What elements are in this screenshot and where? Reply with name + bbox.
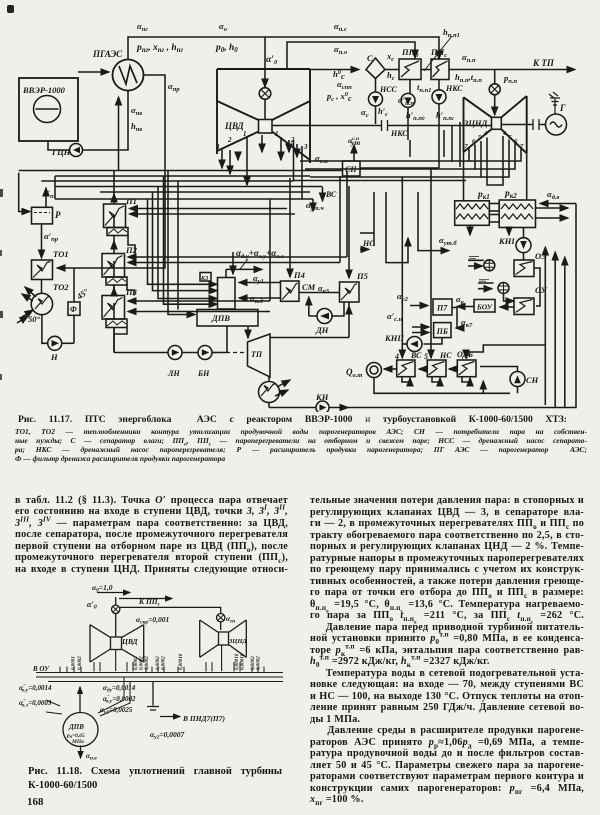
svg-text:Р: Р (55, 210, 61, 220)
svg-text:αк.д: αк.д (250, 293, 264, 305)
svg-text:ДПВ: ДПВ (211, 313, 230, 323)
svg-text:αпр: αпр (168, 81, 180, 93)
svg-text:hпв: hпв (131, 121, 142, 133)
svg-text:hп.п1: hп.п1 (443, 27, 460, 39)
svg-text:0,0002: 0,0002 (162, 656, 167, 670)
svg-text:α"о.у=0,0014: α"о.у=0,0014 (19, 684, 52, 694)
svg-text:αо: αо (219, 21, 228, 33)
svg-text:П2: П2 (125, 245, 138, 255)
svg-text:ПБ: ПБ (436, 327, 448, 336)
svg-text:ЦВД: ЦВД (121, 637, 138, 646)
svg-text:αк: αк (456, 294, 465, 306)
svg-text:αгп: αгп (226, 614, 235, 625)
svg-text:αд.у+αэ.у+αо.э: αд.у+αэ.у+αо.э (236, 248, 284, 260)
svg-text:p0, h0: p0, h0 (215, 43, 238, 54)
svg-text:αпв: αпв (131, 105, 142, 117)
svg-text:αд.в: αд.в (547, 189, 560, 201)
svg-text:КНI: КНI (498, 236, 515, 246)
svg-text:МПа: МПа (71, 739, 84, 745)
svg-text:П5: П5 (356, 271, 369, 281)
svg-text:К ТП: К ТП (532, 58, 555, 68)
svg-text:БН: БН (197, 369, 210, 378)
svg-text:0,00016: 0,00016 (179, 653, 184, 670)
svg-text:xс: xс (386, 51, 394, 63)
svg-text:В ОУ: В ОУ (32, 665, 50, 673)
svg-text:pп.п: pп.п (503, 73, 517, 85)
svg-text:α"о.э=0,0003: α"о.э=0,0003 (19, 699, 52, 709)
svg-text:КН: КН (315, 392, 329, 402)
svg-text:α′с.н: α′с.н (387, 311, 403, 323)
svg-text:ОЭ: ОЭ (535, 251, 547, 261)
svg-text:hс: hс (387, 70, 395, 82)
svg-text:αут.ч: αут.ч (306, 200, 324, 212)
svg-text:tп.п1: tп.п1 (417, 82, 431, 94)
svg-text:ГЦН: ГЦН (51, 147, 71, 157)
svg-text:2: 2 (227, 136, 232, 144)
svg-text:Qо.т: Qо.т (346, 367, 362, 379)
svg-text:П3: П3 (125, 287, 138, 297)
svg-text:αду=0,0014: αду=0,0014 (103, 684, 136, 694)
svg-text:НС: НС (362, 239, 375, 248)
svg-text:0,0002: 0,0002 (156, 656, 161, 670)
svg-text:αу1=0,0025: αу1=0,0025 (100, 706, 133, 716)
svg-text:Г: Г (559, 103, 566, 113)
svg-text:αп.с: αп.с (334, 21, 347, 33)
svg-text:В ПНД7(П7): В ПНД7(П7) (182, 714, 225, 723)
svg-text:1: 1 (243, 130, 247, 138)
svg-text:0,00016: 0,00016 (241, 653, 246, 670)
svg-text:С: С (367, 53, 373, 63)
svg-text:Н: Н (50, 352, 58, 362)
svg-text:αп.п: αп.п (462, 52, 476, 64)
svg-text:ВС: ВС (410, 351, 422, 360)
svg-text:КНII: КНII (384, 333, 405, 343)
svg-text:0,0002: 0,0002 (257, 656, 262, 670)
svg-text:h′п.п0: h′п.п0 (406, 110, 425, 122)
svg-text:α′0: α′0 (266, 55, 278, 66)
svg-text:0,0002: 0,0002 (145, 656, 150, 670)
svg-text:ПП0: ПП0 (401, 47, 419, 59)
svg-text:СН: СН (526, 375, 539, 385)
svg-text:КЗ: КЗ (200, 276, 208, 282)
svg-text:αс.и: αс.и (315, 153, 328, 165)
svg-text:αп.о: αп.о (334, 44, 348, 56)
svg-text:3: 3 (303, 143, 308, 151)
svg-text:h′с: h′с (378, 106, 388, 118)
svg-text:pс , x0с: pс , x0с (326, 91, 352, 103)
svg-text:НКС: НКС (390, 129, 408, 138)
svg-text:5: 5 (424, 352, 428, 361)
svg-text:П7: П7 (436, 304, 448, 313)
svg-text:2: 2 (290, 136, 295, 144)
svg-text:αп.в: αп.в (86, 752, 97, 762)
svg-text:П1: П1 (125, 196, 137, 206)
svg-text:НСС: НСС (379, 85, 398, 94)
svg-text:3: 3 (215, 143, 220, 151)
svg-text:4: 4 (394, 352, 399, 361)
svg-text:ЗЦНД: ЗЦНД (463, 118, 489, 128)
svg-text:ВС: ВС (325, 190, 337, 199)
svg-text:НКС: НКС (445, 84, 463, 93)
svg-text:К ППс: К ППс (138, 597, 161, 608)
svg-text:ТО2: ТО2 (53, 282, 69, 292)
svg-text:0,00016: 0,00016 (235, 653, 240, 670)
svg-text:αк7: αк7 (461, 317, 473, 329)
svg-text:ДПВ: ДПВ (68, 723, 84, 731)
svg-text:αут.б: αут.б (439, 235, 457, 247)
svg-text:1: 1 (275, 130, 279, 138)
svg-text:pк2: pк2 (504, 189, 517, 200)
svg-text:СМ: СМ (302, 282, 316, 292)
svg-text:ОДБ: ОДБ (457, 350, 473, 359)
svg-text:hп.п,tп.п: hп.п,tп.п (455, 72, 482, 84)
svg-text:0,0002: 0,0002 (251, 656, 256, 670)
svg-text:НС: НС (439, 351, 452, 360)
svg-text:ТО1: ТО1 (53, 249, 69, 259)
svg-text:ЗЦНД: ЗЦНД (228, 638, 247, 645)
svg-text:50°: 50° (28, 314, 41, 324)
svg-text:0,0002: 0,0002 (134, 656, 139, 670)
svg-text:αу2=0,0007: αу2=0,0007 (150, 730, 185, 741)
svg-text:БОУ: БОУ (476, 303, 493, 312)
svg-text:α"о.у=0,0002: α"о.у=0,0002 (103, 695, 136, 705)
svg-text:α′0: α′0 (87, 600, 97, 611)
svg-text:pк1: pк1 (477, 190, 490, 201)
svg-text:ЛН: ЛН (167, 369, 180, 378)
svg-text:pпг, xпг , hпг: pпг, xпг , hпг (136, 43, 184, 54)
svg-text:αскр=0,001: αскр=0,001 (136, 615, 169, 626)
svg-text:П4: П4 (293, 270, 305, 280)
svg-text:α′пр: α′пр (44, 231, 59, 243)
svg-text:αс.нут: αс.нут (348, 136, 360, 147)
svg-text:0,0001: 0,0001 (72, 656, 77, 670)
svg-text:ЦВД: ЦВД (224, 121, 245, 131)
svg-text:ДН: ДН (315, 325, 329, 335)
svg-text:α′п.п: α′п.п (398, 95, 414, 107)
svg-text:ПГАЭС: ПГАЭС (92, 49, 123, 59)
svg-text:0,0002: 0,0002 (78, 656, 83, 670)
svg-text:α0=1,0: α0=1,0 (92, 583, 113, 594)
svg-text:ВВЭР-1000: ВВЭР-1000 (22, 85, 66, 95)
svg-text:αпг: αпг (137, 21, 148, 33)
svg-text:ОУ: ОУ (535, 285, 548, 295)
svg-text:45°: 45° (74, 286, 91, 302)
svg-text:ТП: ТП (251, 350, 263, 359)
svg-text:α′п: α′п (43, 188, 54, 200)
svg-text:СН: СН (345, 165, 357, 174)
svg-text:0,0002: 0,0002 (140, 656, 145, 670)
svg-text:Ф: Ф (70, 305, 77, 314)
svg-text:αс: αс (361, 107, 369, 119)
